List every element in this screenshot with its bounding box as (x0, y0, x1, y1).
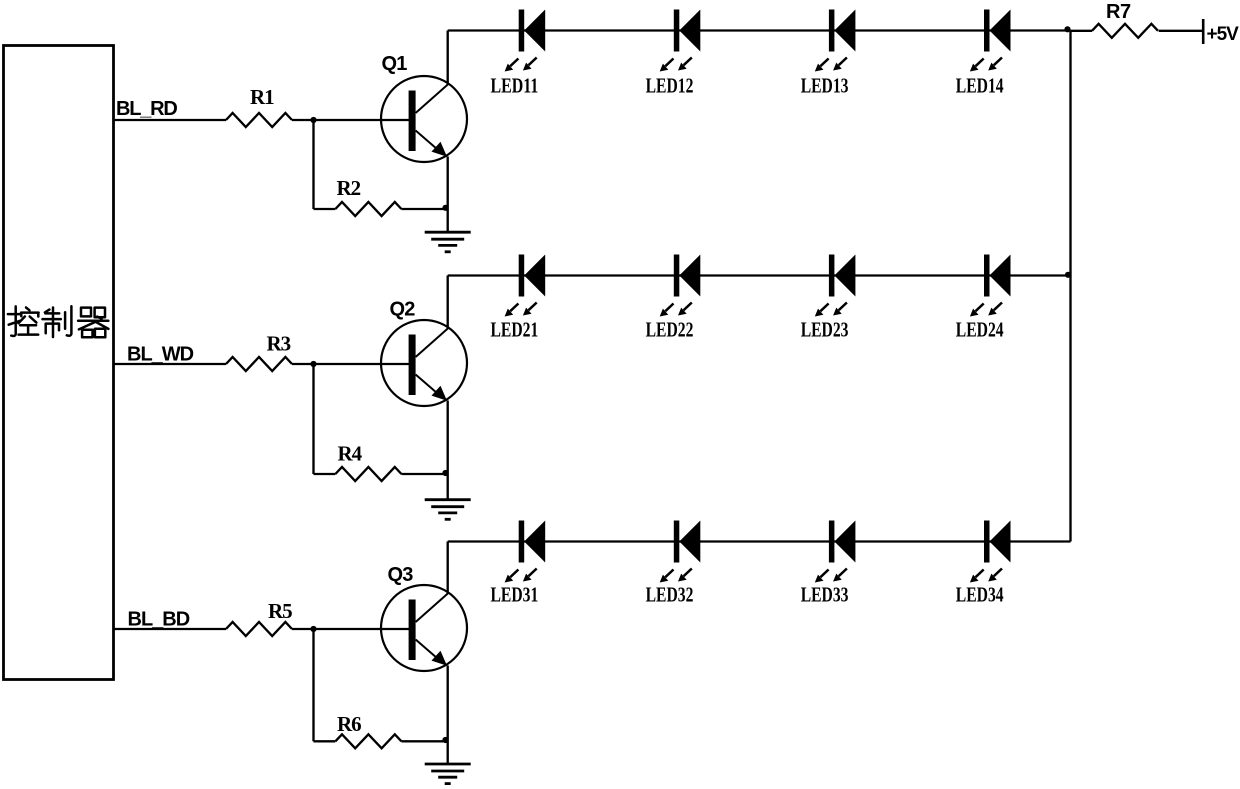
svg-text:LED21: LED21 (491, 317, 539, 341)
power terminal +5V bar (1202, 19, 1205, 44)
diode LED33 (815, 521, 856, 583)
controller box (4, 46, 114, 680)
svg-text:R4: R4 (338, 442, 363, 466)
svg-text:R6: R6 (337, 712, 361, 736)
svg-text:R3: R3 (267, 332, 291, 356)
diode LED22 (660, 255, 701, 317)
diode LED21 (505, 255, 546, 317)
ground row3 (425, 764, 471, 784)
diode LED32 (660, 521, 701, 583)
node junction R1/R2 row1 (310, 117, 316, 123)
svg-text:LED14: LED14 (956, 73, 1004, 97)
svg-text:R5: R5 (268, 599, 292, 623)
node junction R3/R4 row2 (310, 361, 316, 367)
wire Q1 emitter down (447, 157, 449, 233)
svg-text:Q1: Q1 (382, 53, 408, 75)
wire R3 to Q2 base (292, 363, 409, 365)
wire right bus vertical (1069, 31, 1071, 542)
wire R6 to emitter (401, 740, 447, 742)
node junction R5/R6 row3 (310, 626, 316, 632)
wire R4 to emitter (401, 473, 447, 475)
wire LED row2 (448, 274, 1071, 276)
wire R1 to Q1 base (292, 119, 409, 121)
wire R7 to +5V (1159, 30, 1203, 32)
svg-text:R1: R1 (250, 85, 274, 109)
diode LED34 (970, 521, 1011, 583)
svg-text:LED13: LED13 (801, 73, 849, 97)
transistor Q2 (381, 320, 467, 406)
resistor R5 (226, 622, 292, 636)
node junction R4/emitter row2 (442, 470, 448, 476)
svg-text:Q2: Q2 (390, 299, 416, 321)
wire BL_BD from controller to R5 (114, 628, 227, 630)
transistor Q3 (381, 585, 467, 671)
svg-text:LED23: LED23 (801, 317, 849, 341)
svg-text:LED11: LED11 (491, 73, 539, 97)
svg-text:LED32: LED32 (646, 582, 694, 606)
svg-text:Q3: Q3 (388, 564, 414, 586)
wire Q2 collector up (447, 276, 449, 330)
transistor Q1 (381, 76, 467, 162)
wire BL_RD from controller to R1 (114, 119, 227, 121)
diode LED24 (970, 255, 1011, 317)
wire Q1 collector up (447, 31, 449, 86)
wire junction down to R6 (312, 629, 314, 741)
svg-text:BL_WD: BL_WD (127, 343, 194, 365)
controller label 控制器 (8, 306, 109, 337)
diode LED31 (505, 521, 546, 583)
wire junction down to R4 (312, 364, 314, 474)
svg-text:BL_RD: BL_RD (116, 98, 177, 120)
wire Q3 collector up (447, 542, 449, 595)
wire R2 to emitter (401, 208, 447, 210)
diode LED11 (505, 10, 546, 72)
svg-text:LED12: LED12 (646, 73, 694, 97)
svg-text:LED31: LED31 (491, 582, 539, 606)
wire BL_WD from controller to R3 (114, 363, 227, 365)
node junction R2/emitter row1 (442, 205, 448, 211)
node junction R6/emitter row3 (442, 737, 448, 743)
resistor R1 (226, 113, 292, 127)
resistor R7 (1092, 24, 1158, 38)
wire R4 left lead (314, 473, 336, 475)
diode LED12 (660, 10, 701, 72)
svg-text:LED34: LED34 (956, 582, 1004, 606)
wire bus to R7 (1071, 30, 1093, 32)
svg-text:BL_BD: BL_BD (128, 609, 190, 631)
wire Q3 emitter down (447, 666, 449, 765)
svg-text:LED24: LED24 (956, 317, 1004, 341)
node junction top bus (1064, 26, 1070, 32)
wire R5 to Q3 base (292, 628, 409, 630)
svg-text:R7: R7 (1106, 1, 1131, 23)
svg-text:+5V: +5V (1207, 24, 1240, 45)
svg-text:R2: R2 (337, 176, 361, 200)
wire LED row1 (448, 29, 1071, 31)
resistor R3 (226, 357, 292, 371)
svg-text:LED22: LED22 (646, 317, 694, 341)
wire LED row3 (448, 540, 1071, 542)
diode LED14 (970, 10, 1011, 72)
resistor R6 (335, 734, 401, 748)
resistor R4 (335, 467, 401, 481)
ground row2 (425, 500, 471, 520)
wire Q2 emitter down (447, 401, 449, 500)
svg-text:LED33: LED33 (801, 582, 849, 606)
resistor R2 (335, 202, 401, 216)
wire R6 left lead (314, 740, 336, 742)
wire R2 left lead (314, 208, 336, 210)
ground row1 (425, 232, 471, 252)
diode LED13 (815, 10, 856, 72)
node junction row2 bus (1065, 272, 1071, 278)
wire junction down to R2 (312, 120, 314, 209)
diode LED23 (815, 255, 856, 317)
